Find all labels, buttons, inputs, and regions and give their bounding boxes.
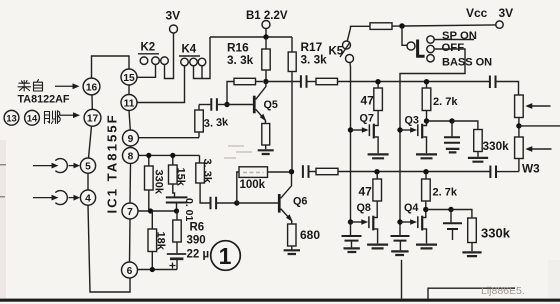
wiper arrow upper [525, 103, 550, 109]
node pin6-18k [150, 267, 155, 272]
svg-text:390: 390 [187, 235, 206, 247]
ground Q8 source [367, 245, 388, 249]
feedback resistor Q5 [227, 78, 263, 104]
wire top U pins16-15 [92, 56, 130, 78]
svg-text:47: 47 [359, 185, 373, 199]
capacitor 22u electrolytic [167, 254, 186, 270]
wire lower rail [338, 171, 490, 173]
wire pin6 rail [138, 269, 177, 271]
arrow jack to pin 4 [69, 195, 81, 201]
input jack lower [33, 191, 67, 205]
pin 6 [122, 262, 138, 278]
left edge tick marks [0, 165, 6, 197]
wire pot tap to edge [519, 125, 560, 127]
resistor 330k upper [474, 130, 483, 157]
resistor 330k (pin8-pin7) [145, 155, 154, 211]
node Q3 drain [424, 118, 429, 123]
svg-text:1: 1 [219, 243, 232, 269]
wire B1 rail [210, 36, 292, 38]
ground 330k upper [468, 158, 488, 162]
wire pin7-6 [129, 219, 132, 262]
svg-text:Lij886E5.: Lij886E5. [481, 285, 525, 297]
node cap top right [449, 118, 454, 123]
ground 330k lower [462, 252, 481, 256]
node pin8-330k [146, 153, 151, 158]
pin 9 [123, 130, 139, 146]
selector contact SP [427, 36, 434, 43]
wire pin8 to 3.3k Q6 [199, 155, 201, 163]
capacitor lower right [490, 166, 496, 179]
wire pin11 to K4 [137, 66, 184, 103]
svg-text:47: 47 [361, 94, 375, 108]
svg-text:330k: 330k [483, 139, 510, 153]
bottom border line [0, 299, 560, 302]
wire to volume pot top [496, 82, 518, 96]
switch K5 [340, 41, 354, 63]
arrow jack to pin 5 [69, 163, 81, 169]
svg-text:16: 16 [86, 82, 98, 93]
wire pin7 rail [138, 210, 177, 212]
resistor 3.3k (Q6 input) [196, 163, 210, 203]
svg-text:Q8: Q8 [357, 202, 371, 214]
feedback resistor 100k Q6 [237, 167, 292, 203]
node Q6 collector [289, 169, 294, 174]
wire Q3 drain right [427, 120, 453, 122]
node R16 / Q5 collector [263, 79, 268, 84]
wire pin9 rail [139, 137, 199, 139]
svg-text:W3: W3 [522, 162, 540, 176]
node Q7 gate [348, 127, 353, 132]
svg-text:5: 5 [85, 161, 91, 172]
label R16 3.3k [227, 41, 254, 68]
pin 8 [123, 148, 139, 164]
svg-text:Q5: Q5 [264, 99, 278, 111]
terminal 3V right [496, 21, 503, 28]
resistor 330k lower [468, 218, 477, 251]
svg-text:15k: 15k [175, 168, 187, 187]
wire pin11-9 [129, 111, 130, 131]
svg-text:14: 14 [27, 113, 38, 123]
svg-text:330k: 330k [481, 226, 511, 241]
ground Q3 source [416, 154, 437, 158]
svg-text:OFF: OFF [442, 42, 465, 54]
svg-text:K2: K2 [141, 42, 156, 54]
svg-text:13: 13 [6, 113, 16, 123]
svg-text:3V: 3V [499, 6, 514, 20]
svg-text:8: 8 [128, 151, 134, 162]
transistor Q3 [400, 124, 427, 154]
ground Q7 source [368, 154, 389, 158]
selector contact OFF [427, 45, 434, 52]
svg-text:9: 9 [128, 134, 134, 145]
node pin8-15k [170, 153, 175, 158]
wire OFF position to Q3 Q4 gates [400, 49, 465, 235]
svg-text:100k: 100k [240, 179, 266, 191]
svg-text:3V: 3V [166, 9, 181, 23]
resistor Q5 emitter [262, 124, 270, 150]
selector bracket [418, 40, 425, 57]
resistor R16 [262, 37, 270, 82]
wiper arrow lower [525, 146, 551, 152]
svg-text:7: 7 [127, 207, 133, 218]
capacitor Q8 gate [342, 222, 362, 247]
capacitor Q6 base [211, 197, 237, 210]
capacitor Q5 base [199, 98, 227, 110]
node Q6 base [234, 200, 239, 205]
svg-text:K4: K4 [182, 44, 197, 56]
wire Q4 drain right [426, 209, 451, 211]
capacitor upper right [490, 76, 496, 89]
wire K5 to Vcc rail [347, 26, 370, 41]
transistor Q7 [351, 124, 379, 154]
node rail 2.7k Q3 [424, 79, 429, 84]
svg-text:17: 17 [87, 114, 99, 125]
wire SP position [434, 39, 474, 41]
pin 11 [121, 95, 137, 111]
ground capacitor Q8 [344, 248, 360, 252]
node B1 [263, 34, 268, 39]
node pin7-R6 [174, 208, 179, 213]
svg-text:3. 3k: 3. 3k [301, 53, 328, 67]
resistor R6 390 [173, 211, 181, 253]
transistor Q5 [227, 82, 267, 124]
node Q8 gate [348, 219, 353, 224]
wire bottom L [428, 288, 515, 298]
resistor lower rail [309, 168, 338, 174]
wire pin8 rail [139, 154, 200, 156]
resistor upper rail [307, 78, 337, 84]
wire K4 to B1 rail [194, 37, 211, 79]
svg-text:15: 15 [123, 73, 135, 84]
svg-text:2. 7k: 2. 7k [433, 187, 458, 199]
node Q4 gate [397, 219, 402, 224]
wire to 330k lower [451, 210, 472, 219]
watermark smudges [224, 146, 252, 158]
pin 4 [80, 190, 95, 205]
svg-text:BASS ON: BASS ON [442, 57, 492, 69]
wire upper rail start [266, 81, 300, 83]
pin 16 [83, 78, 100, 95]
svg-text:2. 7k: 2. 7k [433, 96, 458, 108]
capacitor Q4 gate [391, 236, 410, 250]
svg-text:3. 3k: 3. 3k [227, 53, 254, 67]
wire pin17-5 [89, 126, 92, 158]
arrow to pin 16 [55, 83, 80, 89]
resistor 18k (pin7-pin6) [148, 211, 157, 270]
node pot center tap [516, 123, 521, 128]
capacitor 0.01 [166, 197, 188, 211]
label 来自 (from) [18, 80, 43, 91]
svg-text:Q7: Q7 [360, 113, 374, 125]
3V terminal [165, 25, 178, 79]
node Q5 base [224, 102, 229, 107]
pin 7 [122, 203, 138, 219]
capacitor lower rail [303, 165, 309, 178]
figure number 1 circled [211, 241, 241, 271]
capacitor upper rail [301, 75, 307, 87]
capacitor Q3 drain [444, 121, 460, 143]
capacitor Q4 drain [443, 210, 462, 241]
resistor 680 Q6 emitter [288, 224, 296, 250]
svg-text:0. 01: 0. 01 [183, 198, 195, 222]
potentiometer upper [515, 95, 524, 137]
resistor 15k (pin8) [169, 155, 178, 197]
node Q3 gate [397, 127, 402, 132]
svg-text:3. 3k: 3. 3k [203, 116, 229, 130]
wire pin4 loop to pin6 [88, 205, 130, 292]
wire pin8-7 [129, 164, 132, 204]
svg-text:22 µ: 22 µ [187, 249, 210, 261]
svg-text:Q4: Q4 [404, 202, 418, 214]
transistor Q8 [351, 216, 378, 244]
svg-text:680: 680 [300, 228, 320, 242]
switch K2 label [138, 42, 159, 54]
switch K4 contacts [181, 58, 206, 66]
wire upper rail [338, 81, 490, 83]
circled 14 [25, 110, 40, 125]
selector contact BASS [427, 55, 434, 62]
wire K5 down to Q7 Q8 gates [349, 62, 352, 222]
resistor R17 [288, 37, 296, 172]
ground Q6 emitter [284, 250, 300, 254]
svg-text:IC1 TA8155F: IC1 TA8155F [105, 113, 120, 213]
wire pin15 to K2 [137, 65, 155, 78]
wire to 330k upper [452, 121, 478, 130]
label 脚 (pin) [45, 111, 61, 124]
node rail 47 Q7 [375, 79, 380, 84]
wire pin16-17 [91, 95, 93, 110]
wire pin5-4 [87, 173, 89, 190]
wire Vcc rail [392, 25, 496, 26]
pin 15 [121, 69, 137, 85]
svg-text:330k: 330k [153, 170, 165, 195]
node Q4 drain [423, 207, 428, 212]
ground Q5 emitter [258, 150, 274, 154]
label R6 390 [187, 222, 206, 247]
svg-text:Q6: Q6 [293, 196, 307, 208]
transistor Q4 [400, 210, 427, 244]
svg-text:6: 6 [127, 266, 133, 277]
wire pin9-8 [130, 146, 132, 148]
svg-text:R6: R6 [190, 222, 205, 234]
switch K4 label [179, 44, 200, 57]
wire to selector wiper [402, 29, 407, 46]
resistor 47 Q7 [374, 84, 383, 126]
ground Q4 source [416, 245, 437, 249]
input jack upper [33, 159, 67, 173]
svg-text:Q3: Q3 [405, 115, 419, 127]
resistor 47 Q8 [373, 174, 382, 218]
wire bottom stub down [401, 260, 403, 299]
arrow to pin 17 [60, 112, 80, 118]
resistor 3.3k (pin9) [195, 105, 204, 138]
selector wiper contact [407, 42, 415, 50]
resistor Vcc rail [370, 23, 392, 30]
node cap bottom right [448, 207, 453, 212]
pin 17 [84, 109, 101, 126]
svg-text:18k: 18k [155, 232, 167, 251]
svg-text:TA8122AF: TA8122AF [18, 94, 70, 106]
ground capacitor Q4 [391, 251, 408, 255]
ground capacitor Q3 [446, 149, 460, 153]
switch K2 contacts [140, 57, 168, 65]
svg-text:4: 4 [85, 193, 91, 204]
wire lower rail to pot bottom [497, 171, 519, 173]
svg-text:3. 3k: 3. 3k [201, 159, 213, 184]
circled 13 [4, 110, 19, 125]
wire pin15-11 [128, 85, 130, 95]
transistor Q6 [237, 172, 293, 225]
svg-text:11: 11 [124, 98, 135, 109]
resistor 2.7k Q4 [422, 174, 431, 210]
resistor 2.7k Q3 [422, 84, 431, 126]
node lower rail 2.7k Q4 [423, 169, 428, 174]
potentiometer lower W3 [515, 137, 524, 172]
battery terminal B1 [262, 21, 270, 38]
svg-text:Vcc: Vcc [466, 6, 488, 20]
label R17 3.3k [301, 40, 328, 67]
node pin7-330k [148, 208, 153, 213]
node Vcc switch feed [399, 23, 405, 29]
node lower rail 47 Q8 [374, 169, 379, 174]
pin 5 [80, 158, 95, 173]
